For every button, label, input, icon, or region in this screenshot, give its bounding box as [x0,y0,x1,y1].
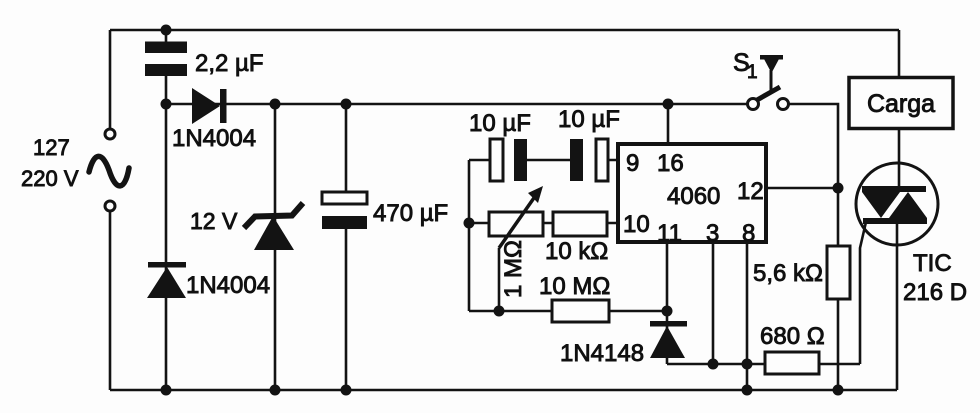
svg-text:220 V: 220 V [21,166,79,191]
svg-text:10: 10 [623,211,650,238]
svg-text:12 V: 12 V [190,208,238,234]
wire triac MT1 inside [896,221,899,245]
potentiometer 1M box [489,212,543,236]
resistor 5,6k vertical [827,246,850,299]
resistor 10M [552,300,609,322]
IC U1 4060 box [618,144,766,242]
potentiometer arrow [499,186,543,248]
svg-text:680 Ω: 680 Ω [760,323,825,350]
wire pot wiper [498,248,501,311]
svg-text:4060: 4060 [667,183,720,210]
svg-text:127: 127 [33,135,70,160]
svg-text:1 MΩ: 1 MΩ [500,240,527,298]
svg-text:3: 3 [706,220,719,247]
wire bottom rail [110,389,897,392]
svg-text:10 µF: 10 µF [469,110,531,137]
node DC line / 470uF [341,99,352,110]
node bottom rail / zener [270,385,281,396]
wire main DC line [166,103,748,106]
wire bottom terminal to bottom rail [109,211,112,390]
svg-text:470 µF: 470 µF [373,200,448,227]
svg-text:1N4004: 1N4004 [172,125,256,152]
capacitor 10uF B [570,139,608,181]
node DC line / pin16 [663,99,674,110]
node wiper / 10M row [494,306,505,317]
switch S1 [748,55,789,110]
svg-text:1: 1 [747,62,758,83]
diode D1 1N4004 horizontal [192,88,227,124]
resistor 10k [553,212,607,236]
node pin12 / switch / 5.6k [833,183,844,194]
svg-text:16: 16 [657,150,684,177]
wire D2 branch [165,104,168,390]
triac symbol [862,186,927,224]
node gate row / pin8 [742,359,753,370]
source terminal bottom [105,201,115,211]
svg-text:10 kΩ: 10 kΩ [545,238,608,265]
svg-text:5,6 kΩ: 5,6 kΩ [753,260,823,287]
diode 1N4148 [650,321,687,358]
node pin11 / 10M row [662,306,673,317]
node bottom rail / pin8 [742,385,753,396]
wire pin 12 [766,187,838,190]
Carga load box [849,78,953,129]
node DC line / zener [270,99,281,110]
wire gate row [667,363,860,366]
triac TIC216D circle [856,163,938,245]
wire left drop to top terminal [109,30,112,129]
wire pin 8 down [746,242,749,390]
wire triac MT1 to bottom rail [896,221,899,390]
wire Carga to triac MT2 [898,128,901,188]
node bottom rail / 5.6k [833,385,844,396]
wire 470uF branch bottom [345,229,348,390]
svg-text:12: 12 [737,178,764,205]
svg-text:1N4004: 1N4004 [186,272,270,299]
svg-text:2,2 µF: 2,2 µF [195,50,264,77]
svg-text:10 µF: 10 µF [558,106,620,133]
resistor 680 [765,352,819,374]
zener diode 12V [244,203,303,250]
node top rail / C1 [161,25,172,36]
svg-text:8: 8 [742,220,755,247]
wire switch to 5.6k column [788,104,838,188]
AC source sine symbol [89,156,129,186]
svg-text:11: 11 [657,220,682,247]
wire top rail [110,29,899,32]
svg-text:216 D: 216 D [903,279,967,306]
node gate row / pin3 [708,359,719,370]
wire 470uF branch top [345,104,348,192]
wire triac MT2 inside [898,163,901,188]
svg-text:TIC: TIC [913,250,952,277]
source terminal top [105,129,115,139]
node bottom rail / D2 [161,385,172,396]
capacitor 10uF A [490,139,527,181]
capacitor C1 2,2uF plates [145,42,187,77]
capacitor 470uF [322,192,367,229]
wire cap branch from top rail [165,30,168,42]
wire pin 11 down [666,242,669,364]
svg-text:Carga: Carga [867,90,935,118]
wire cap row to pin 9 [469,159,618,162]
wire triac gate [860,222,866,364]
svg-text:1N4148: 1N4148 [560,340,644,367]
diode D2 1N4004 vertical [147,262,186,298]
svg-text:10 MΩ: 10 MΩ [539,273,610,300]
node bottom rail / 470uF [341,385,352,396]
wire right drop to Carga [898,30,901,78]
wire pin 3 down [712,242,715,364]
node osc rail / pot row [464,218,475,229]
wire zener branch [274,104,277,390]
wire pin 16 [667,104,670,144]
wire pot row to pin 10 [469,222,618,225]
wire 5.6k column [837,188,840,390]
svg-text:9: 9 [626,150,639,177]
wire oscillator left rail [468,160,471,311]
wire 10M row to pin 11 [469,310,667,313]
node DC line / C1 [161,99,172,110]
wire cap bottom to DC node [165,76,168,104]
